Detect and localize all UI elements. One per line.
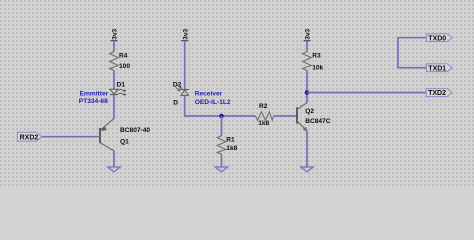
flag RXD2 xyxy=(18,132,42,141)
svg-text:3v3: 3v3 xyxy=(182,28,189,39)
supply 3v3 rail 3 (right) xyxy=(304,28,312,40)
svg-text:PT334-68: PT334-68 xyxy=(79,98,108,105)
wire TXD0-TXD1 bracket xyxy=(398,38,427,68)
resistor R1 xyxy=(217,136,237,155)
wire R2 to Q2 base xyxy=(274,115,298,117)
wire R1 to ground xyxy=(221,154,223,167)
wire R4 to D1 xyxy=(113,71,115,90)
svg-text:D1: D1 xyxy=(117,82,126,89)
svg-text:TXD2: TXD2 xyxy=(428,90,446,97)
svg-text:10k: 10k xyxy=(312,65,323,72)
svg-text:TXD1: TXD1 xyxy=(428,65,446,72)
photodiode D2 (receiver) xyxy=(173,81,189,106)
wire junction down to R1 xyxy=(221,116,223,136)
svg-text:1k8: 1k8 xyxy=(258,120,269,127)
wire 3v3 to R4 xyxy=(113,41,115,52)
resistor R4 xyxy=(110,52,131,71)
svg-text:Q1: Q1 xyxy=(120,138,129,145)
label Receiver OED-IL-1L2 xyxy=(195,90,231,106)
wire D1 to Q1 emitter xyxy=(113,95,115,119)
svg-text:100: 100 xyxy=(119,63,130,70)
wire 3v3 to D2 xyxy=(184,41,186,89)
wire RXD2 to Q1 base xyxy=(42,136,101,138)
svg-text:RXD2: RXD2 xyxy=(20,134,39,141)
junction node at Q2 collector xyxy=(305,90,310,95)
junction node at R1 top xyxy=(219,114,224,119)
label Emmitter PT334-68 xyxy=(79,90,109,105)
svg-text:OED-IL-1L2: OED-IL-1L2 xyxy=(195,99,231,106)
supply 3v3 rail 1 (left) xyxy=(111,28,119,40)
flag TXD1 xyxy=(427,64,453,73)
svg-text:3v3: 3v3 xyxy=(112,28,119,39)
wire Q1 emitter to ground xyxy=(113,151,115,167)
wire D2 down and right to R2 xyxy=(185,95,256,116)
ground (left) xyxy=(108,167,121,172)
LED D1 (emitter) xyxy=(110,82,127,97)
wire R3 to junction xyxy=(306,71,308,103)
svg-text:R2: R2 xyxy=(259,103,268,110)
svg-text:BC807-40: BC807-40 xyxy=(120,127,150,134)
svg-text:1k8: 1k8 xyxy=(226,145,237,152)
svg-text:R3: R3 xyxy=(312,53,321,60)
wire 3v3 to R3 xyxy=(306,41,308,52)
svg-text:Q2: Q2 xyxy=(305,108,314,115)
wire junction to TXD2 xyxy=(307,92,426,94)
resistor R3 xyxy=(303,52,324,72)
svg-text:Emmitter: Emmitter xyxy=(80,90,109,97)
svg-text:BC847C: BC847C xyxy=(305,118,331,125)
supply 3v3 rail 2 (middle) xyxy=(181,28,189,40)
transistor Q2 xyxy=(297,103,331,132)
flag TXD0 xyxy=(427,34,453,43)
ground (middle) xyxy=(215,167,228,172)
svg-text:TXD0: TXD0 xyxy=(428,35,446,42)
wire Q2 emitter to ground xyxy=(306,131,308,167)
svg-text:3v3: 3v3 xyxy=(305,28,312,39)
ground (right) xyxy=(301,167,314,172)
flag TXD2 xyxy=(426,89,452,98)
svg-text:D: D xyxy=(173,99,178,106)
svg-text:R4: R4 xyxy=(119,53,128,60)
svg-text:Receiver: Receiver xyxy=(195,90,223,97)
svg-text:R1: R1 xyxy=(226,137,235,144)
resistor R2 xyxy=(255,103,273,127)
transistor Q1 xyxy=(100,118,150,151)
